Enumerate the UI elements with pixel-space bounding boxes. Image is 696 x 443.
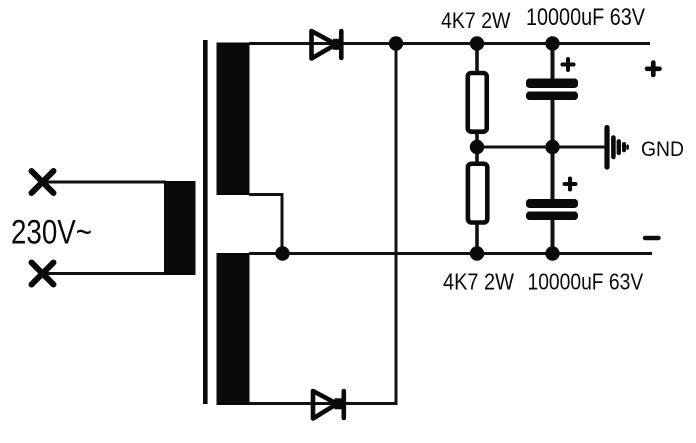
ground	[607, 128, 628, 168]
node: R1 top junction	[470, 36, 484, 50]
node: D1 cathode junction	[389, 36, 403, 50]
svg-text:230V~: 230V~	[11, 213, 92, 251]
wire: R2 top lead	[475, 147, 479, 166]
wire: C2 bottom lead	[551, 216, 555, 254]
resistor R1	[468, 73, 487, 132]
transformer core	[203, 40, 208, 404]
diode D1 (top rectifier)	[312, 31, 342, 59]
resistor R2	[468, 164, 487, 223]
label + (positive output)	[647, 63, 660, 76]
wire: center tap horizontal from upper secondary	[249, 193, 284, 196]
svg-text:10000uF 63V: 10000uF 63V	[526, 4, 645, 31]
wire: C2 top lead	[551, 147, 555, 202]
wire: center tap vertical down to node	[281, 193, 284, 254]
wire: R1 top lead	[475, 44, 479, 76]
capacitor C1 polarity +	[563, 59, 574, 70]
node: R2 bottom junction	[470, 246, 484, 260]
svg-text:4K7 2W: 4K7 2W	[441, 8, 511, 33]
terminal X1 (mains input top)	[32, 171, 54, 193]
wire: bottom diode branch	[249, 402, 398, 405]
capacitor C2 (lower electrolytic)	[526, 199, 578, 220]
wire: bottom-left input from X2 to transformer primary	[43, 272, 166, 275]
node: resistor midpoint junction	[470, 140, 484, 154]
wire: top rail (+ rail) from secondary to right edge	[249, 42, 650, 45]
svg-text:GND: GND	[641, 137, 684, 161]
transformer secondary winding upper	[217, 43, 250, 196]
diode D2 (bottom rectifier)	[313, 391, 344, 419]
capacitor C1 (upper electrolytic)	[526, 79, 578, 101]
wire: top-left input from X1 to transformer primary	[43, 181, 166, 184]
wire: C1 bottom lead	[551, 96, 555, 147]
node: C1 top junction	[545, 36, 559, 50]
wire: R2 bottom lead	[475, 221, 479, 254]
label - (negative output)	[645, 236, 659, 240]
node: center tap junction	[275, 246, 289, 260]
wire: C1 top lead	[551, 44, 555, 83]
wire: right vertical joining bottom diode to top rail	[395, 44, 398, 404]
svg-text:10000uF 63V: 10000uF 63V	[528, 269, 644, 295]
wire: bottom rail (- rail) from lower secondary to right edge	[249, 252, 652, 255]
wire: R1 bottom lead	[475, 130, 479, 147]
transformer secondary winding lower	[217, 253, 250, 405]
transformer T1 primary winding	[164, 181, 196, 275]
node: capacitor midpoint junction	[545, 140, 559, 154]
terminal X2 (mains input bottom)	[32, 263, 54, 285]
node: C2 bottom junction	[545, 246, 559, 260]
svg-text:4K7 2W: 4K7 2W	[443, 269, 515, 295]
capacitor C2 polarity +	[565, 179, 576, 190]
wire: mid rail to ground	[477, 146, 605, 149]
